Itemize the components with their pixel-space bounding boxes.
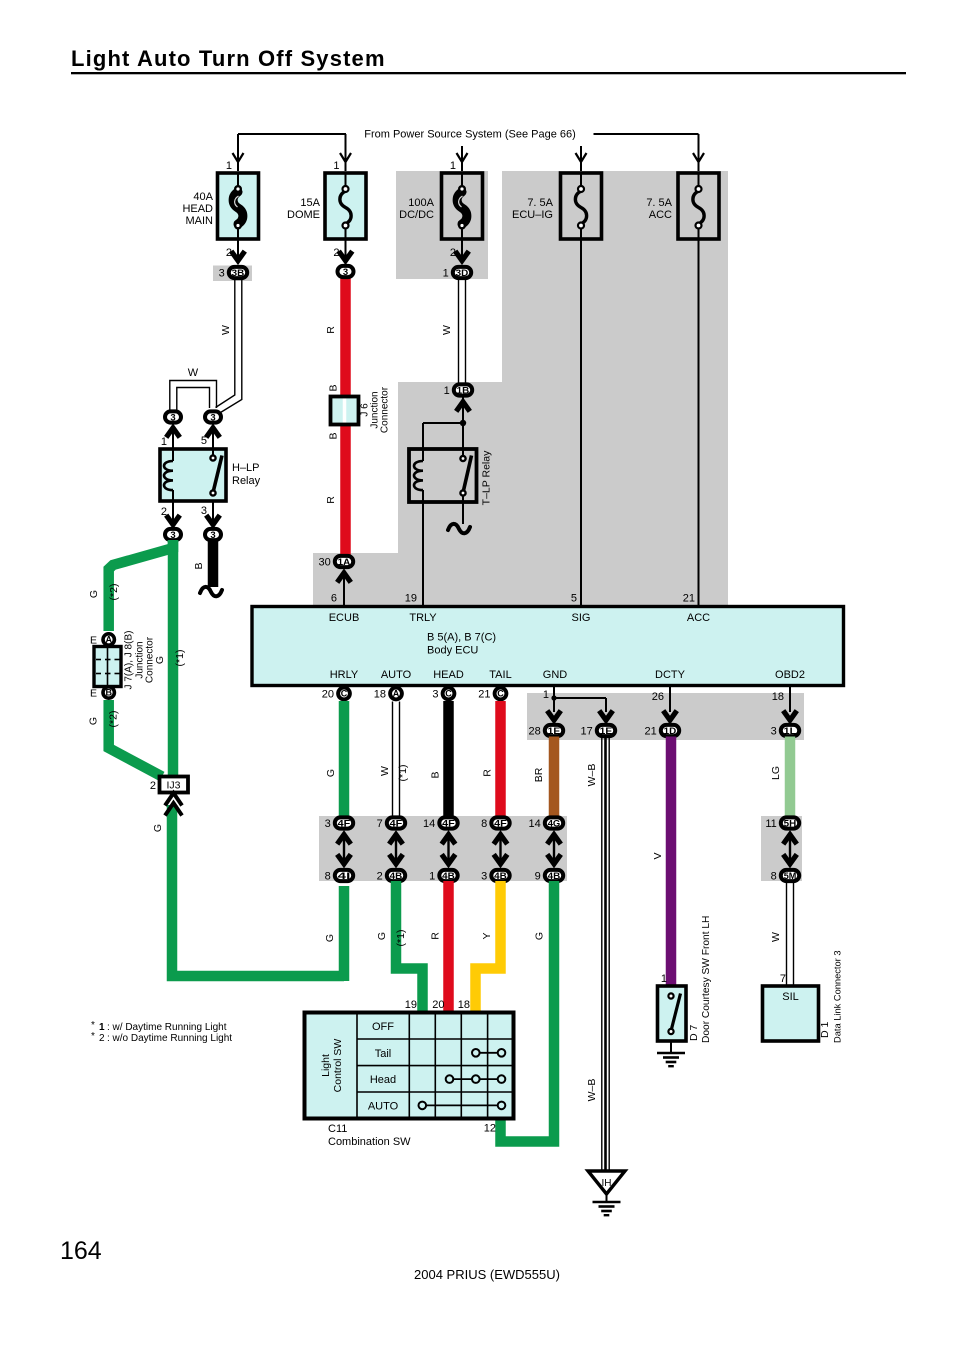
svg-text:Light: Light xyxy=(320,1054,332,1077)
svg-text:1: 1 xyxy=(543,689,549,701)
svg-text:1: 1 xyxy=(444,385,450,397)
svg-text:2: 2 xyxy=(377,870,383,882)
svg-text:IH: IH xyxy=(602,1178,612,1189)
svg-text:Door Courtesy SW Front LH: Door Courtesy SW Front LH xyxy=(701,916,712,1043)
svg-text:MAIN: MAIN xyxy=(186,215,214,227)
svg-text:7: 7 xyxy=(377,818,383,830)
svg-text:3: 3 xyxy=(432,689,438,701)
svg-text:B: B xyxy=(328,384,340,391)
svg-text:V: V xyxy=(652,852,664,859)
svg-text:4F: 4F xyxy=(494,818,507,829)
svg-text:1: 1 xyxy=(443,267,449,279)
svg-text:J 7(A), J 8(B): J 7(A), J 8(B) xyxy=(124,631,135,690)
svg-text:4F: 4F xyxy=(442,818,455,829)
svg-text:1: 1 xyxy=(450,160,456,172)
svg-text:18: 18 xyxy=(772,691,784,703)
svg-text:12: 12 xyxy=(484,1123,496,1135)
svg-text:4G: 4G xyxy=(548,818,561,829)
svg-text:B: B xyxy=(105,688,112,698)
svg-text:30: 30 xyxy=(319,556,331,568)
svg-text:ECUB: ECUB xyxy=(329,612,360,624)
svg-text:4F: 4F xyxy=(338,818,351,829)
svg-text:3D: 3D xyxy=(456,268,469,279)
svg-text:15A: 15A xyxy=(300,197,320,209)
svg-text:7. 5A: 7. 5A xyxy=(527,197,553,209)
svg-text:100A: 100A xyxy=(408,197,434,209)
svg-text:B: B xyxy=(328,432,340,439)
svg-text:R: R xyxy=(325,496,337,504)
svg-text:HEAD: HEAD xyxy=(433,669,464,681)
svg-text:E: E xyxy=(90,635,97,647)
svg-text:ACC: ACC xyxy=(687,612,710,624)
svg-text:E: E xyxy=(90,688,97,700)
svg-text:*: * xyxy=(91,1020,95,1031)
svg-text:G: G xyxy=(325,769,337,777)
svg-text:(*1): (*1) xyxy=(397,765,409,782)
svg-text:4F: 4F xyxy=(390,818,403,829)
svg-text:R: R xyxy=(325,326,337,334)
svg-text:Y: Y xyxy=(481,932,493,939)
svg-text:(*1): (*1) xyxy=(174,650,186,667)
svg-text:*: * xyxy=(91,1031,95,1042)
svg-text:18: 18 xyxy=(374,689,386,701)
svg-text:3B: 3B xyxy=(232,268,245,279)
svg-text:Relay: Relay xyxy=(232,475,261,487)
svg-text:G: G xyxy=(88,590,100,598)
svg-text:1E: 1E xyxy=(600,726,613,737)
svg-text:C11: C11 xyxy=(328,1123,347,1135)
svg-text:H–LP: H–LP xyxy=(232,462,260,474)
svg-text:8: 8 xyxy=(325,870,331,882)
svg-text:DC/DC: DC/DC xyxy=(399,209,434,221)
svg-text:W: W xyxy=(188,367,199,379)
svg-text:28: 28 xyxy=(529,725,541,737)
svg-text:Connector: Connector xyxy=(145,636,156,683)
svg-text:3: 3 xyxy=(481,870,487,882)
svg-text:R: R xyxy=(482,769,494,777)
svg-text:1: 1 xyxy=(99,1022,105,1033)
svg-text:C: C xyxy=(341,689,348,699)
svg-text:G: G xyxy=(152,824,164,832)
svg-text:5: 5 xyxy=(201,435,207,447)
svg-text:3: 3 xyxy=(771,725,777,737)
svg-text:AUTO: AUTO xyxy=(368,1101,399,1113)
svg-text:R: R xyxy=(430,932,442,940)
svg-text:2: 2 xyxy=(150,780,156,792)
svg-text:OFF: OFF xyxy=(372,1021,394,1033)
svg-text:BR: BR xyxy=(533,767,545,782)
svg-text:G: G xyxy=(154,656,166,664)
svg-text:A: A xyxy=(105,635,112,645)
svg-text:T–LP Relay: T–LP Relay xyxy=(481,450,493,505)
svg-text:3: 3 xyxy=(210,412,215,423)
svg-text:DCTY: DCTY xyxy=(655,669,686,681)
svg-text:G: G xyxy=(324,934,336,942)
svg-text:21: 21 xyxy=(683,593,695,605)
svg-text:G: G xyxy=(376,932,388,940)
svg-text:4B: 4B xyxy=(548,871,561,882)
svg-text:C: C xyxy=(497,689,504,699)
svg-text:17: 17 xyxy=(581,725,593,737)
svg-text:Tail: Tail xyxy=(375,1048,392,1060)
svg-text:4B: 4B xyxy=(494,871,507,882)
svg-text:AUTO: AUTO xyxy=(381,669,412,681)
svg-text:1: 1 xyxy=(333,160,339,172)
svg-text:Light Auto Turn Off System: Light Auto Turn Off System xyxy=(71,46,386,71)
svg-text:19: 19 xyxy=(405,999,417,1011)
svg-text:9: 9 xyxy=(535,870,541,882)
svg-text:B: B xyxy=(430,771,442,778)
svg-text:1L: 1L xyxy=(784,726,797,737)
svg-text:4I: 4I xyxy=(338,871,351,882)
svg-text:W–B: W–B xyxy=(586,1079,598,1102)
svg-text:Data Link Connector 3: Data Link Connector 3 xyxy=(833,950,843,1043)
svg-text:3: 3 xyxy=(325,818,331,830)
svg-text:G: G xyxy=(88,717,100,725)
svg-text:19: 19 xyxy=(405,593,417,605)
svg-text:W: W xyxy=(379,766,391,776)
svg-text:14: 14 xyxy=(529,818,541,830)
svg-text:GND: GND xyxy=(543,669,568,681)
svg-text:1: 1 xyxy=(429,870,435,882)
svg-text:1E: 1E xyxy=(548,726,561,737)
svg-text:5H: 5H xyxy=(784,818,797,829)
svg-text:20: 20 xyxy=(322,689,334,701)
svg-text:B 5(A), B 7(C): B 5(A), B 7(C) xyxy=(427,632,496,644)
svg-text:(*2): (*2) xyxy=(108,584,120,601)
svg-text:2: 2 xyxy=(99,1033,105,1044)
svg-text:HEAD: HEAD xyxy=(182,203,213,215)
svg-text:5: 5 xyxy=(571,593,577,605)
svg-text:26: 26 xyxy=(652,691,664,703)
svg-text:W: W xyxy=(441,325,453,335)
svg-text:B: B xyxy=(193,562,205,569)
svg-text:4B: 4B xyxy=(390,871,403,882)
svg-text:Head: Head xyxy=(370,1074,396,1086)
svg-text:Body ECU: Body ECU xyxy=(427,645,478,657)
svg-text:11: 11 xyxy=(765,818,776,830)
svg-text:Control SW: Control SW xyxy=(332,1039,344,1093)
svg-text:Connector: Connector xyxy=(380,386,391,433)
svg-text:W: W xyxy=(770,932,782,942)
svg-text:ECU–IG: ECU–IG xyxy=(512,209,553,221)
svg-text:3: 3 xyxy=(210,530,215,541)
svg-text:7. 5A: 7. 5A xyxy=(646,197,672,209)
svg-text:18: 18 xyxy=(458,999,470,1011)
svg-text:1: 1 xyxy=(226,160,232,172)
svg-text:5M: 5M xyxy=(784,871,797,882)
svg-text:3: 3 xyxy=(219,267,225,279)
svg-text:6: 6 xyxy=(331,593,337,605)
svg-text:2004 PRIUS (EWD555U): 2004 PRIUS (EWD555U) xyxy=(414,1267,560,1282)
svg-text:40A: 40A xyxy=(193,191,213,203)
svg-text:A: A xyxy=(393,689,400,699)
svg-text:D 7: D 7 xyxy=(688,1025,700,1042)
svg-text:D 1: D 1 xyxy=(819,1022,831,1039)
svg-text:W–B: W–B xyxy=(586,764,598,787)
svg-text:TAIL: TAIL xyxy=(489,669,511,681)
svg-text:3: 3 xyxy=(170,530,175,541)
svg-text:HRLY: HRLY xyxy=(330,669,359,681)
svg-text:8: 8 xyxy=(771,870,777,882)
svg-text:21: 21 xyxy=(645,725,657,737)
svg-text:LG: LG xyxy=(770,766,782,780)
svg-text:W: W xyxy=(220,325,232,335)
svg-text:SIL: SIL xyxy=(782,991,799,1003)
svg-text:1D: 1D xyxy=(664,726,677,737)
svg-text:: w/ Daytime Running Light: : w/ Daytime Running Light xyxy=(107,1022,227,1033)
svg-text:OBD2: OBD2 xyxy=(775,669,805,681)
svg-text:4B: 4B xyxy=(442,871,455,882)
svg-text:1: 1 xyxy=(661,973,667,985)
svg-text:1B: 1B xyxy=(457,385,470,396)
svg-text:1: 1 xyxy=(161,436,167,448)
svg-text:ACC: ACC xyxy=(649,209,672,221)
svg-text:164: 164 xyxy=(60,1237,102,1265)
svg-text:14: 14 xyxy=(423,818,435,830)
svg-text:21: 21 xyxy=(478,689,490,701)
svg-text:(*2): (*2) xyxy=(108,711,120,728)
svg-text:From Power Source System (See: From Power Source System (See Page 66) xyxy=(364,129,576,141)
svg-text:3: 3 xyxy=(170,412,175,423)
svg-text:(*1): (*1) xyxy=(395,930,407,947)
svg-text:3: 3 xyxy=(343,267,348,278)
svg-text:G: G xyxy=(534,932,546,940)
svg-text:7: 7 xyxy=(780,973,786,985)
svg-text:DOME: DOME xyxy=(287,209,320,221)
svg-text:Combination SW: Combination SW xyxy=(328,1136,411,1148)
svg-text:TRLY: TRLY xyxy=(409,612,437,624)
svg-text:SIG: SIG xyxy=(572,612,591,624)
svg-text:1A: 1A xyxy=(338,557,351,568)
svg-text:C: C xyxy=(445,689,452,699)
svg-text:20: 20 xyxy=(432,999,444,1011)
svg-text:: w/o Daytime Running Light: : w/o Daytime Running Light xyxy=(107,1033,232,1044)
svg-text:8: 8 xyxy=(481,818,487,830)
